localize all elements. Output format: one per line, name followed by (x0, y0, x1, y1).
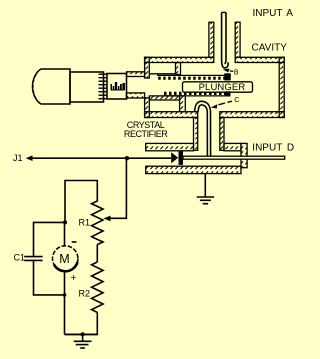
meter M (52, 242, 77, 284)
cavity bottom wall (145, 112, 285, 118)
coax bottom wall (146, 166, 241, 173)
J1 arrow (26, 155, 33, 161)
cavity right wall (279, 57, 284, 117)
top pocket (inner conductor cross-section, upper) (149, 63, 180, 75)
svg-text:RECTIFIER: RECTIFIER (124, 129, 168, 139)
svg-text:M: M (59, 252, 69, 266)
wire top branch (65, 181, 97, 223)
coax end plate (241, 143, 247, 167)
capacitor C1 (24, 257, 42, 261)
svg-text:J1: J1 (13, 153, 23, 163)
svg-text:+: + (70, 272, 76, 284)
wire junction to wiper (106, 158, 126, 218)
wire C1 bottom (34, 261, 65, 295)
micrometer thimble (70, 72, 107, 102)
bottom pocket (inner conductor cross-section, lower) (149, 96, 185, 112)
wire C1 top (34, 222, 66, 256)
wire R1-R2 (96, 245, 98, 263)
plunger top fingers (157, 73, 231, 80)
resistor R1 (92, 196, 103, 245)
svg-text:B: B (234, 70, 239, 77)
wire meter bottom (64, 271, 66, 334)
micrometer knob (33, 69, 71, 104)
probe sleeve right wall (235, 22, 240, 57)
wire J1 line (31, 157, 171, 159)
coupling loop (195, 101, 211, 156)
diode CR1 (171, 151, 183, 165)
node junction above meter (63, 220, 67, 224)
micrometer shaft housing top wall (127, 72, 145, 77)
loop sleeve right wall (220, 118, 224, 151)
micrometer barrel scale (107, 74, 127, 100)
svg-text:INPUT D: INPUT D (252, 143, 294, 154)
coax top wall right (224, 143, 241, 150)
probe sleeve left wall (209, 22, 214, 57)
plunger bottom fingers (163, 91, 230, 96)
ground (meter circuit) (74, 334, 92, 348)
wire R2 bottom (65, 312, 98, 334)
ground (coax) (197, 174, 214, 204)
resistor R2 (92, 262, 103, 312)
svg-text:R1: R1 (79, 218, 91, 228)
svg-text:PLUNGER: PLUNGER (199, 82, 246, 93)
cavity left wall (145, 57, 150, 117)
node junction C1/meter (63, 293, 67, 297)
pointer C (211, 97, 239, 109)
cavity top wall (145, 57, 285, 62)
wire meter top (64, 222, 66, 246)
output conductor bar to INPUT D (183, 156, 285, 159)
loop sleeve left wall (194, 118, 198, 151)
micrometer shaft housing bottom wall (127, 93, 145, 98)
bottom wire (65, 333, 98, 335)
svg-text:C: C (234, 97, 239, 104)
wiper arrow of R1 (104, 216, 111, 222)
svg-text:INPUT A: INPUT A (253, 8, 294, 19)
svg-text:C1: C1 (14, 253, 26, 263)
plunger label box (183, 82, 253, 93)
pointer B (223, 69, 239, 77)
node junction ground (81, 332, 85, 336)
svg-text:R2: R2 (79, 289, 91, 299)
svg-text:CAVITY: CAVITY (252, 42, 288, 53)
probe inner conductor (222, 12, 229, 68)
node junction on J1 line (125, 156, 129, 160)
coax top wall left (146, 143, 194, 150)
